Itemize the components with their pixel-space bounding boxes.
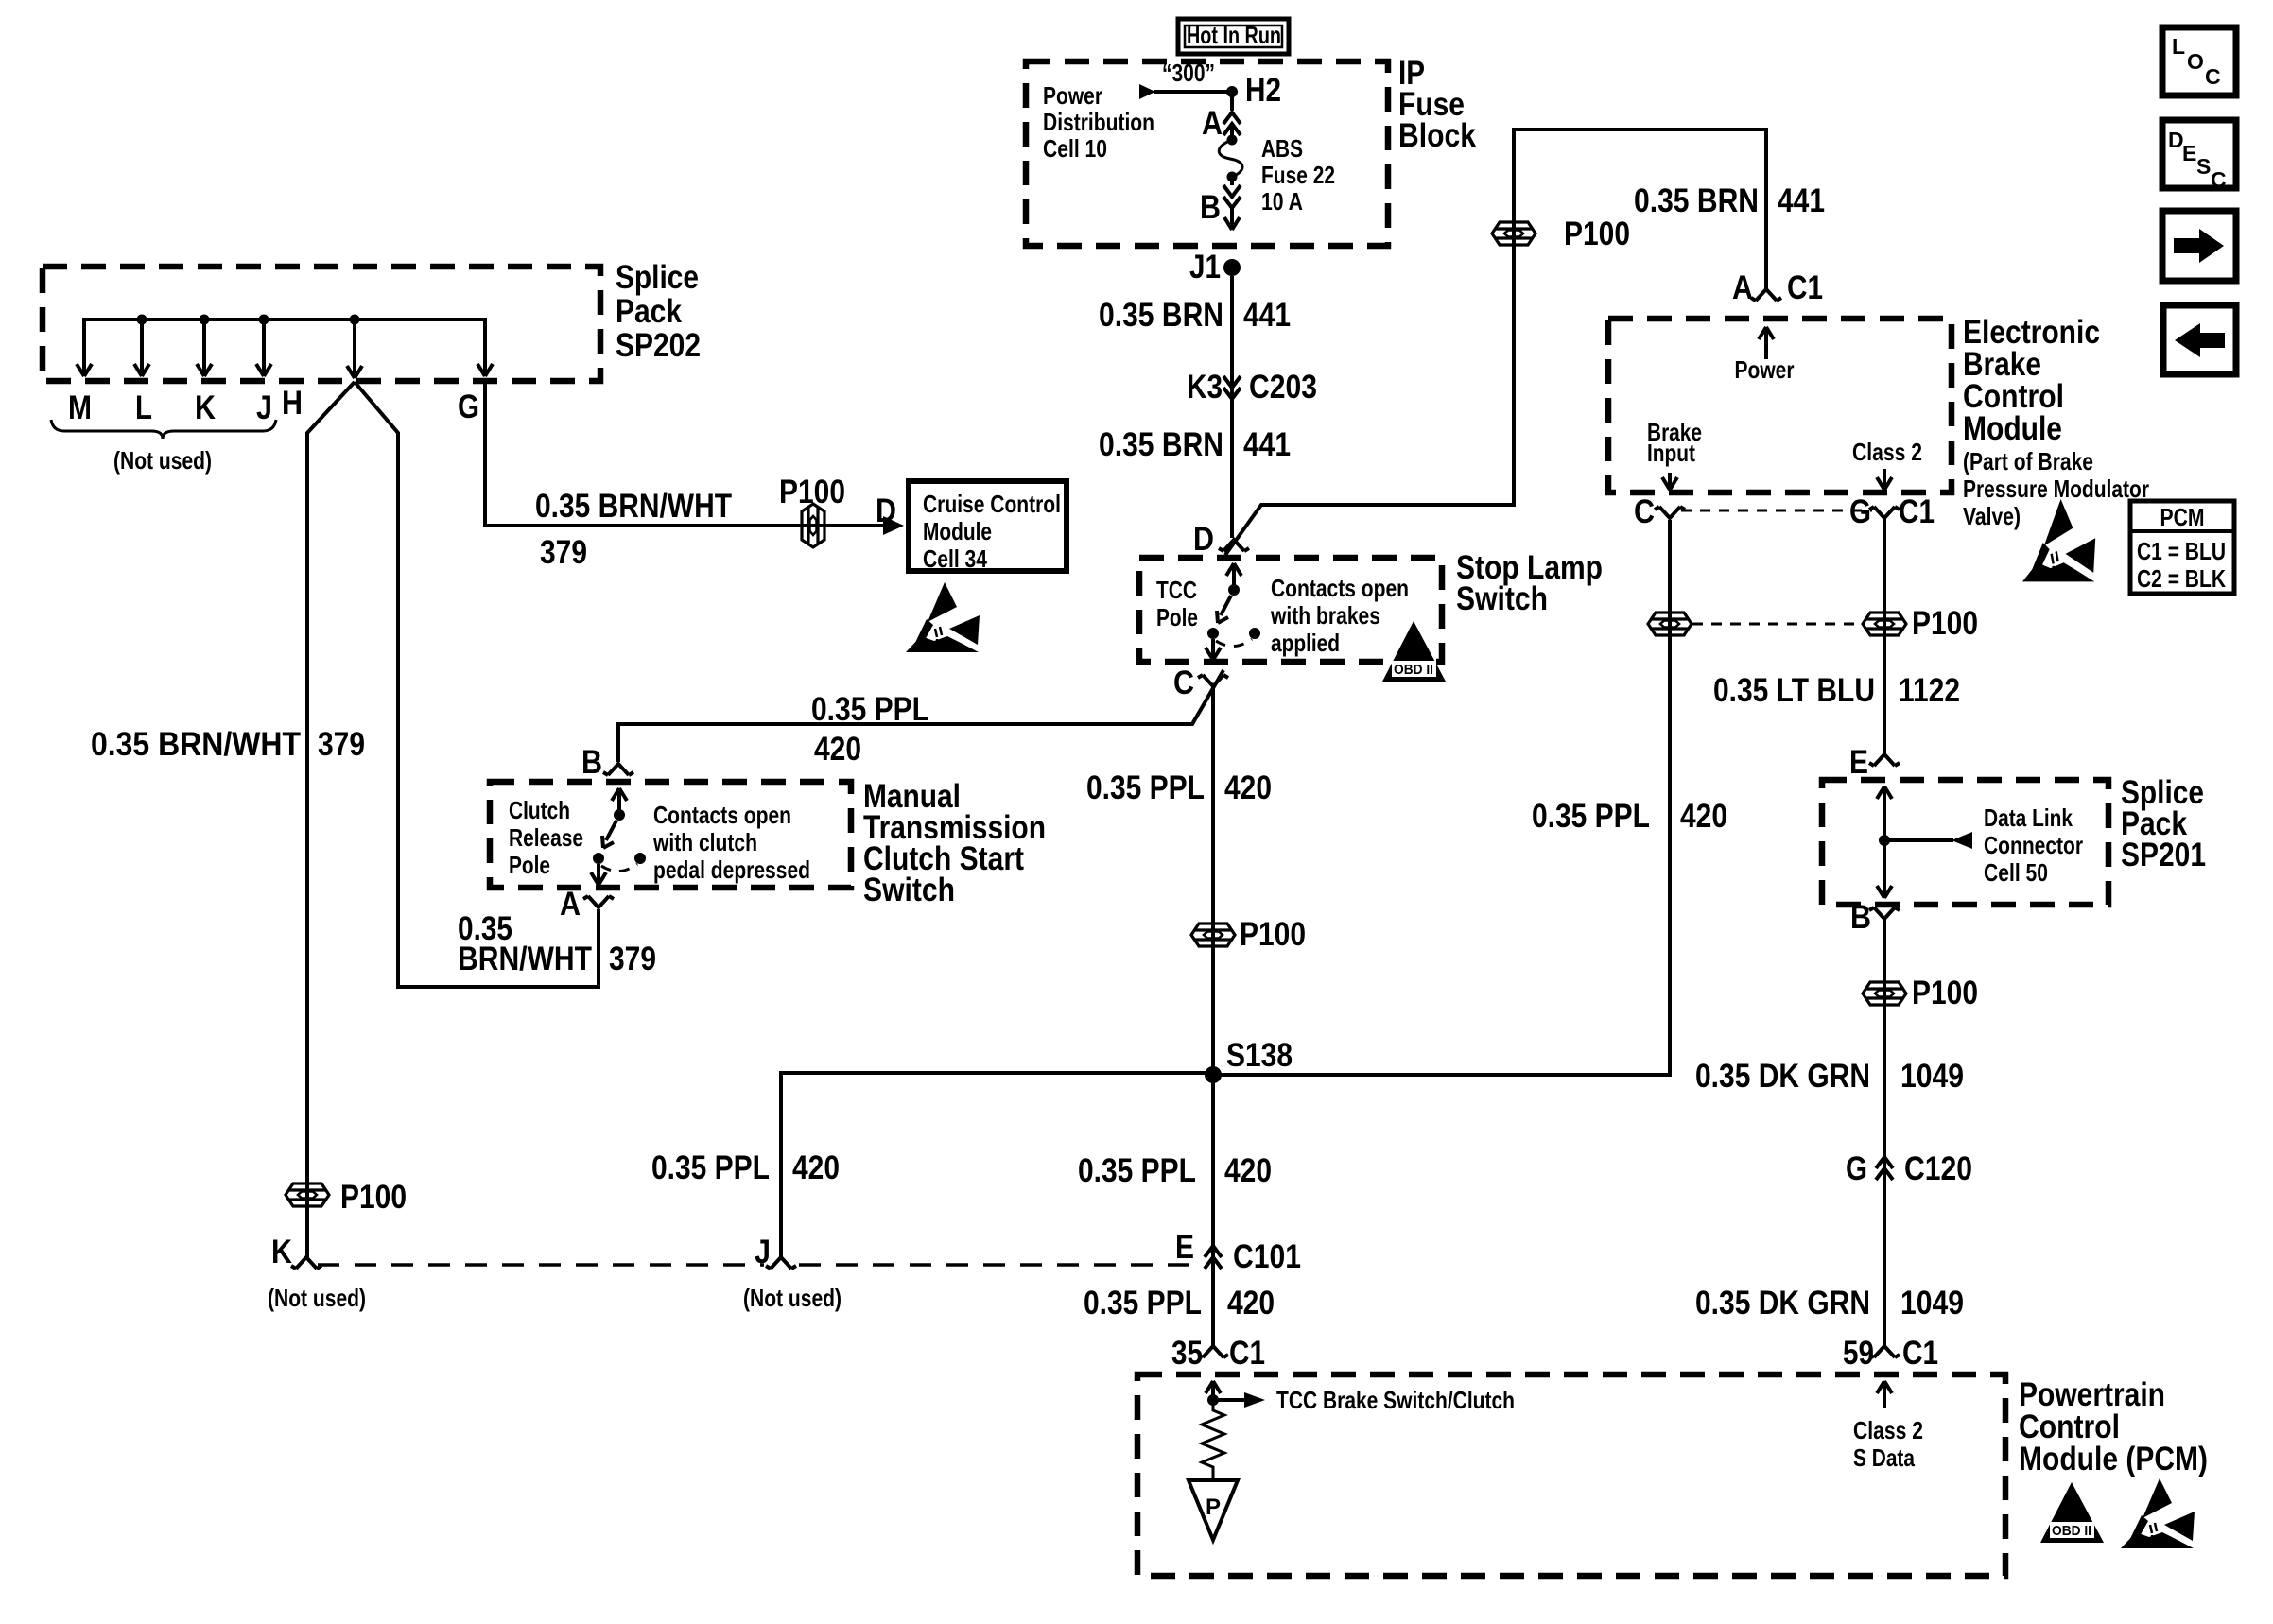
PCM internal branch arrow TCC bbox=[1213, 1398, 1244, 1402]
svg-text:Contacts open: Contacts open bbox=[653, 801, 791, 829]
svg-text:C2 = BLK: C2 = BLK bbox=[2137, 564, 2226, 593]
svg-text:M: M bbox=[68, 389, 92, 426]
label 0.35 BRN/WHT 379 (A wire) bbox=[458, 910, 656, 977]
svg-text:P100: P100 bbox=[340, 1179, 407, 1216]
clutch release pole label bbox=[509, 796, 583, 879]
wire SP201 B down to PCM pin 59 bbox=[1883, 919, 1886, 1346]
svg-text:Pole: Pole bbox=[1156, 603, 1198, 631]
svg-text:0.35 BRN: 0.35 BRN bbox=[1099, 297, 1223, 334]
label contacts open with clutch pedal depressed bbox=[652, 801, 810, 884]
clutch switch dashed travel arc bbox=[601, 864, 637, 872]
svg-text:420: 420 bbox=[1224, 769, 1272, 806]
svg-text:C120: C120 bbox=[1904, 1150, 1972, 1187]
svg-text:applied: applied bbox=[1271, 629, 1340, 657]
clutch switch arrow down to A bbox=[591, 864, 606, 885]
svg-text:0.35 PPL: 0.35 PPL bbox=[1078, 1152, 1196, 1189]
cruise control module box bbox=[909, 481, 1067, 571]
wire H tent right leg down and to clutch A bbox=[355, 382, 599, 987]
svg-text:G: G bbox=[458, 389, 479, 425]
svg-text:C1: C1 bbox=[1902, 1335, 1938, 1372]
node S138 dot bbox=[1205, 1066, 1222, 1083]
svg-text:O: O bbox=[2187, 49, 2204, 74]
svg-text:Valve): Valve) bbox=[1963, 502, 2021, 530]
clutch switch arm with arrowhead bbox=[602, 821, 616, 848]
svg-text:G: G bbox=[1846, 1150, 1867, 1187]
label 0.35 BRN 441 (above C203) bbox=[1099, 297, 1291, 334]
powertrain control module dashed box bbox=[1137, 1374, 2005, 1576]
EBCM power pin arrow bbox=[1759, 327, 1774, 359]
thin dashed link C to G bbox=[1681, 510, 1872, 512]
connector E C101 double chevron bbox=[1205, 1246, 1222, 1269]
clutch switch alternate contact dot bbox=[634, 853, 646, 864]
wire clutch B feed (horizontal from corner to C diagonal) bbox=[618, 670, 1223, 762]
pin J chevron (not used) bbox=[766, 1257, 796, 1269]
svg-text:Module: Module bbox=[1963, 410, 2062, 447]
PCM legend box bbox=[2130, 501, 2234, 594]
clutch switch pivot dot bbox=[593, 853, 604, 864]
ground P triangle bbox=[1189, 1480, 1238, 1540]
svg-text:(Part of Brake: (Part of Brake bbox=[1963, 447, 2093, 475]
wire fuse exit arrow through box edge bbox=[1224, 177, 1240, 230]
wire H tent left leg down to K bbox=[307, 382, 355, 1257]
PCM pin 59 arrow up bbox=[1877, 1381, 1892, 1408]
svg-text:1122: 1122 bbox=[1899, 672, 1960, 709]
EBCM class 2 pin arrow bbox=[1877, 469, 1892, 490]
TCC pole label bbox=[1156, 576, 1198, 631]
svg-text:PCM: PCM bbox=[2160, 503, 2205, 531]
connector G C120 double chevron bbox=[1876, 1157, 1893, 1180]
svg-text:Class 2: Class 2 bbox=[1852, 438, 1922, 466]
svg-text:Cruise Control: Cruise Control bbox=[923, 490, 1061, 518]
wire chevron to fuse bbox=[1230, 126, 1234, 137]
svg-text:420: 420 bbox=[1224, 1152, 1272, 1189]
wire power feed to H2 bbox=[1154, 92, 1232, 111]
left arrow icon box bbox=[2163, 305, 2236, 374]
label 0.35 PPL 420 (J riser) bbox=[651, 1149, 840, 1186]
wire stub to L with arrow bbox=[134, 320, 149, 376]
svg-text:Switch: Switch bbox=[1456, 580, 1548, 617]
node splice dot J bbox=[259, 315, 269, 325]
stop lamp switch label bbox=[1456, 549, 1603, 617]
stop lamp switch pivot dot bbox=[1207, 628, 1219, 639]
svg-text:Clutch: Clutch bbox=[509, 796, 570, 824]
svg-text:0.35 BRN: 0.35 BRN bbox=[1634, 182, 1759, 219]
connector P100 on EBCM feed bbox=[1492, 222, 1536, 245]
svg-text:Contacts open: Contacts open bbox=[1271, 574, 1409, 602]
fuse label ABS Fuse 22 10 A bbox=[1261, 134, 1335, 216]
svg-text:Power: Power bbox=[1043, 81, 1102, 110]
brace not-used group bbox=[51, 420, 276, 439]
wire stub to H with arrow bbox=[347, 320, 362, 378]
svg-text:J1: J1 bbox=[1189, 249, 1221, 285]
connector P100 on EBCM G wire bbox=[1863, 613, 1906, 635]
svg-text:SP202: SP202 bbox=[616, 327, 701, 364]
svg-text:E: E bbox=[2182, 141, 2196, 165]
svg-text:420: 420 bbox=[792, 1149, 840, 1186]
svg-text:C1: C1 bbox=[1787, 269, 1823, 306]
svg-text:A: A bbox=[1732, 269, 1753, 306]
svg-text:Hot In Run: Hot In Run bbox=[1187, 21, 1281, 49]
svg-text:Release: Release bbox=[509, 823, 583, 852]
svg-text:TCC: TCC bbox=[1156, 576, 1197, 604]
svg-text:379: 379 bbox=[540, 534, 587, 571]
node splice dot K bbox=[200, 315, 210, 325]
svg-text:with clutch: with clutch bbox=[652, 828, 757, 856]
pin 59 C1 chevron bbox=[1869, 1346, 1900, 1357]
svg-text:J: J bbox=[755, 1234, 771, 1270]
SP201 internal pin arrow down bbox=[1877, 840, 1892, 898]
svg-text:Pole: Pole bbox=[509, 851, 550, 879]
svg-text:0.35 BRN: 0.35 BRN bbox=[1099, 426, 1223, 463]
connector K3 C203 double chevron bbox=[1223, 376, 1241, 399]
svg-text:441: 441 bbox=[1778, 182, 1825, 219]
stop lamp switch dashed box bbox=[1139, 558, 1442, 662]
wire stub to M with arrow bbox=[77, 320, 92, 376]
stop lamp switch pin arrow up to D bbox=[1226, 563, 1241, 590]
svg-text:1049: 1049 bbox=[1900, 1285, 1964, 1322]
svg-text:E: E bbox=[1175, 1229, 1194, 1266]
pin C chevron (EBCM brake input) bbox=[1655, 507, 1685, 518]
svg-text:1049: 1049 bbox=[1900, 1058, 1964, 1095]
pin A chevron of EBCM bbox=[1751, 289, 1781, 301]
svg-text:K3: K3 bbox=[1187, 369, 1223, 406]
clutch switch upper contact dot bbox=[614, 809, 625, 821]
thin dashed link P100 to P100 bbox=[1692, 623, 1861, 626]
pin G chevron (EBCM class 2) bbox=[1869, 507, 1900, 518]
power distribution cell 10 label bbox=[1043, 81, 1154, 163]
svg-text:0.35 BRN/WHT: 0.35 BRN/WHT bbox=[91, 726, 301, 763]
pin E chevron of SP201 bbox=[1869, 754, 1900, 766]
svg-text:H2: H2 bbox=[1245, 72, 1281, 109]
svg-text:0.35 DK GRN: 0.35 DK GRN bbox=[1695, 1058, 1870, 1095]
cruise control module label bbox=[923, 490, 1061, 573]
pin D chevron of stop lamp switch bbox=[1219, 540, 1249, 551]
svg-text:P100: P100 bbox=[1912, 975, 1978, 1011]
svg-text:pedal depressed: pedal depressed bbox=[653, 855, 810, 884]
svg-text:(Not used): (Not used) bbox=[743, 1284, 842, 1312]
svg-text:E: E bbox=[1849, 744, 1868, 781]
connector P100 on main vertical bbox=[1191, 924, 1235, 946]
svg-text:C: C bbox=[1173, 665, 1194, 701]
stop lamp switch upper contact dot bbox=[1228, 584, 1240, 596]
splice pack SP202 label bbox=[616, 259, 701, 364]
connector P100 on EBCM C wire bbox=[1648, 613, 1692, 635]
PCM label bbox=[2019, 1376, 2208, 1477]
data link connector arrow bbox=[1952, 832, 1972, 849]
svg-text:S: S bbox=[2196, 154, 2211, 179]
node splice dot H bbox=[350, 315, 360, 325]
clutch switch pin arrow up to B bbox=[612, 788, 627, 815]
svg-text:0.35 PPL: 0.35 PPL bbox=[1086, 769, 1205, 806]
svg-text:H: H bbox=[282, 385, 303, 422]
svg-text:C101: C101 bbox=[1233, 1238, 1301, 1275]
svg-text:0.35 PPL: 0.35 PPL bbox=[1084, 1285, 1202, 1322]
svg-text:379: 379 bbox=[609, 941, 656, 977]
splice pack SP201 label bbox=[2121, 774, 2206, 873]
DESC icon box bbox=[2162, 120, 2236, 192]
svg-text:S Data: S Data bbox=[1853, 1443, 1915, 1472]
connector P100 on left leg bbox=[286, 1183, 329, 1206]
resistor (PCM pull-up) bbox=[1202, 1406, 1224, 1478]
fuse ABS 22 element bbox=[1219, 135, 1242, 182]
stop lamp switch alternate contact dot bbox=[1249, 628, 1260, 639]
label Data Link Connector Cell 50 bbox=[1984, 803, 2083, 887]
wire main vertical C down to C1 pin 35 bbox=[1211, 686, 1215, 1346]
svg-text:C: C bbox=[1634, 493, 1655, 530]
svg-text:D: D bbox=[1193, 521, 1214, 558]
node H2 dot bbox=[1226, 86, 1238, 97]
svg-text:0.35 PPL: 0.35 PPL bbox=[651, 1149, 770, 1186]
node J1 dot bbox=[1223, 259, 1241, 276]
svg-text:L: L bbox=[135, 389, 152, 426]
svg-text:D: D bbox=[876, 492, 896, 529]
svg-text:Cell 34: Cell 34 bbox=[923, 544, 987, 573]
svg-text:10 A: 10 A bbox=[1261, 187, 1303, 216]
svg-text:J: J bbox=[256, 389, 272, 426]
EBCM brake input pin arrow bbox=[1662, 473, 1677, 490]
pin B chevron of clutch switch bbox=[603, 764, 633, 775]
LOC icon box bbox=[2162, 27, 2236, 95]
label 0.35 DK GRN 1049 (above C120) bbox=[1695, 1058, 1964, 1095]
connector P100 on SP201 B wire bbox=[1863, 982, 1906, 1005]
svg-text:ABS: ABS bbox=[1261, 134, 1303, 163]
svg-text:B: B bbox=[581, 744, 602, 781]
svg-text:L: L bbox=[2172, 34, 2185, 59]
wire S138 right branch up to EBCM C bbox=[1213, 520, 1670, 1075]
hot in run box bbox=[1178, 19, 1289, 54]
svg-text:Distribution: Distribution bbox=[1043, 108, 1154, 136]
label 0.35 BRN 441 (below C203) bbox=[1099, 426, 1291, 463]
splice pack SP202 dashed box bbox=[43, 267, 600, 381]
svg-text:A: A bbox=[560, 886, 581, 923]
pin A double chevron bbox=[1223, 112, 1241, 135]
PCM pin 35 arrow up bbox=[1206, 1381, 1221, 1400]
svg-text:P100: P100 bbox=[1912, 605, 1978, 642]
svg-text:Module (PCM): Module (PCM) bbox=[2019, 1441, 2208, 1477]
label 0.35 PPL 420 (below S138) bbox=[1078, 1152, 1272, 1189]
svg-text:Switch: Switch bbox=[863, 872, 955, 908]
stop lamp switch arm with arrowhead bbox=[1217, 596, 1231, 623]
label 0.35 DK GRN 1049 (below C120) bbox=[1695, 1285, 1964, 1322]
manual transmission clutch start switch dashed box bbox=[490, 782, 851, 888]
svg-text:441: 441 bbox=[1243, 297, 1291, 334]
svg-text:B: B bbox=[1200, 189, 1221, 226]
label 0.35 LT BLU 1122 bbox=[1713, 672, 1960, 709]
pin D arrow into cruise module bbox=[883, 516, 904, 535]
pin 35 C1 chevron bbox=[1198, 1346, 1228, 1357]
splice pack SP201 dashed box bbox=[1822, 780, 2108, 905]
svg-text:Block: Block bbox=[1398, 117, 1476, 154]
svg-text:35: 35 bbox=[1171, 1335, 1203, 1372]
pin B double chevron bbox=[1223, 185, 1241, 208]
svg-text:420: 420 bbox=[814, 731, 861, 768]
OBD II icon (stop lamp switch) bbox=[1382, 621, 1446, 682]
node splice dot L bbox=[137, 315, 147, 325]
power feed arrow bbox=[1139, 84, 1155, 99]
svg-text:Cell 50: Cell 50 bbox=[1984, 858, 2048, 887]
wire EBCM G down to SP201 E bbox=[1883, 518, 1886, 754]
wire G branch to cruise module bbox=[485, 382, 883, 526]
svg-text:S138: S138 bbox=[1226, 1037, 1293, 1074]
label 0.35 PPL 420 (EBCM brake input wire) bbox=[1532, 798, 1727, 835]
svg-text:SP201: SP201 bbox=[2121, 837, 2206, 873]
svg-text:A: A bbox=[1202, 105, 1223, 142]
wire stub to K with arrow bbox=[197, 320, 212, 376]
svg-text:0.35 PPL: 0.35 PPL bbox=[1532, 798, 1650, 835]
svg-text:0.35 DK GRN: 0.35 DK GRN bbox=[1695, 1285, 1870, 1322]
wire not-used dashed line K to E bbox=[318, 1263, 1201, 1267]
svg-text:P100: P100 bbox=[779, 474, 845, 510]
ESD icon (PCM) bbox=[2121, 1478, 2195, 1548]
label 0.35 BRN 441 (EBCM feed) bbox=[1634, 182, 1825, 219]
IP fuse block dashed box bbox=[1026, 61, 1388, 246]
svg-text:P100: P100 bbox=[1240, 916, 1306, 953]
svg-text:420: 420 bbox=[1227, 1285, 1275, 1322]
label Class 2 S Data bbox=[1853, 1416, 1923, 1472]
svg-text:Connector: Connector bbox=[1984, 831, 2083, 859]
stop lamp switch arrow down to C bbox=[1206, 639, 1221, 660]
svg-text:with brakes: with brakes bbox=[1270, 601, 1380, 630]
svg-text:0.35 LT BLU: 0.35 LT BLU bbox=[1713, 672, 1875, 709]
svg-text:(Not used): (Not used) bbox=[268, 1284, 366, 1312]
svg-text:K: K bbox=[271, 1234, 292, 1270]
svg-text:C203: C203 bbox=[1249, 369, 1317, 406]
svg-text:Cell 10: Cell 10 bbox=[1043, 134, 1107, 163]
SP201 junction dot bbox=[1879, 835, 1890, 846]
ESD icon below cruise module bbox=[906, 582, 980, 652]
svg-text:B: B bbox=[1850, 899, 1871, 936]
label 0.35 PPL 420 (below C) bbox=[1086, 769, 1272, 806]
OBD II icon (PCM) bbox=[2040, 1482, 2104, 1543]
svg-text:Pressure Modulator: Pressure Modulator bbox=[1963, 475, 2149, 503]
svg-text:C: C bbox=[2211, 167, 2227, 192]
label 0.35 BRN/WHT 379 (left leg) bbox=[91, 726, 365, 763]
svg-text:C1 = BLU: C1 = BLU bbox=[2137, 537, 2226, 565]
svg-text:P: P bbox=[1206, 1494, 1221, 1520]
pin C chevron of stop lamp switch bbox=[1198, 675, 1228, 686]
svg-text:C: C bbox=[2205, 64, 2221, 89]
pin A chevron of clutch switch bbox=[583, 896, 614, 907]
label 0.35 PPL 420 (above pin 35) bbox=[1084, 1285, 1275, 1322]
svg-text:Splice: Splice bbox=[616, 259, 699, 296]
pin B chevron of SP201 bbox=[1869, 907, 1900, 919]
right arrow icon box bbox=[2162, 211, 2236, 281]
manual transmission clutch start switch label bbox=[863, 778, 1046, 908]
pin K chevron (not used) bbox=[291, 1257, 321, 1269]
svg-text:Data Link: Data Link bbox=[1984, 803, 2073, 832]
label contacts open with brakes applied bbox=[1270, 574, 1409, 657]
svg-text:C1: C1 bbox=[1229, 1335, 1265, 1372]
svg-text:“300”: “300” bbox=[1162, 59, 1215, 87]
wire SP201 branch to data link connector bbox=[1884, 838, 1953, 842]
wire stub to G with arrow bbox=[477, 320, 493, 376]
svg-text:420: 420 bbox=[1680, 798, 1727, 835]
svg-text:C1: C1 bbox=[1899, 493, 1935, 530]
connector P100 on G wire (vertical lens) bbox=[802, 504, 824, 547]
wire SP202 bus bbox=[84, 320, 485, 325]
svg-text:Input: Input bbox=[1647, 439, 1695, 467]
SP201 internal pin arrow up bbox=[1877, 786, 1892, 840]
svg-text:Power: Power bbox=[1735, 355, 1795, 384]
svg-text:BRN/WHT: BRN/WHT bbox=[458, 941, 592, 977]
wire J1 down to D bbox=[1230, 276, 1234, 538]
svg-text:Class 2: Class 2 bbox=[1853, 1416, 1923, 1444]
svg-text:P100: P100 bbox=[1564, 216, 1630, 252]
stop lamp switch dashed travel arc bbox=[1216, 639, 1252, 647]
svg-text:59: 59 bbox=[1843, 1335, 1874, 1372]
svg-text:TCC Brake Switch/Clutch: TCC Brake Switch/Clutch bbox=[1276, 1386, 1515, 1414]
PCM internal junction dot bbox=[1207, 1394, 1219, 1406]
ESD icon (EBCM) bbox=[2022, 499, 2095, 581]
EBCM label bbox=[1963, 314, 2149, 530]
svg-text:Fuse 22: Fuse 22 bbox=[1261, 161, 1335, 189]
svg-text:Module: Module bbox=[923, 517, 992, 545]
IP fuse block label bbox=[1398, 55, 1476, 154]
svg-text:Pack: Pack bbox=[616, 293, 682, 330]
wire EBCM power feed from P100 riser to D bbox=[1225, 130, 1766, 555]
electronic brake control module dashed box bbox=[1608, 319, 1952, 492]
svg-text:K: K bbox=[195, 389, 216, 426]
svg-text:0.35 BRN/WHT: 0.35 BRN/WHT bbox=[535, 488, 732, 525]
svg-text:(Not used): (Not used) bbox=[113, 446, 212, 475]
label Brake Input bbox=[1647, 418, 1702, 467]
svg-text:0.35 PPL: 0.35 PPL bbox=[811, 691, 929, 728]
svg-text:441: 441 bbox=[1243, 426, 1291, 463]
wire J riser to S138 bbox=[781, 1073, 1213, 1257]
svg-text:379: 379 bbox=[318, 726, 365, 763]
wire stub to J with arrow bbox=[256, 320, 271, 376]
